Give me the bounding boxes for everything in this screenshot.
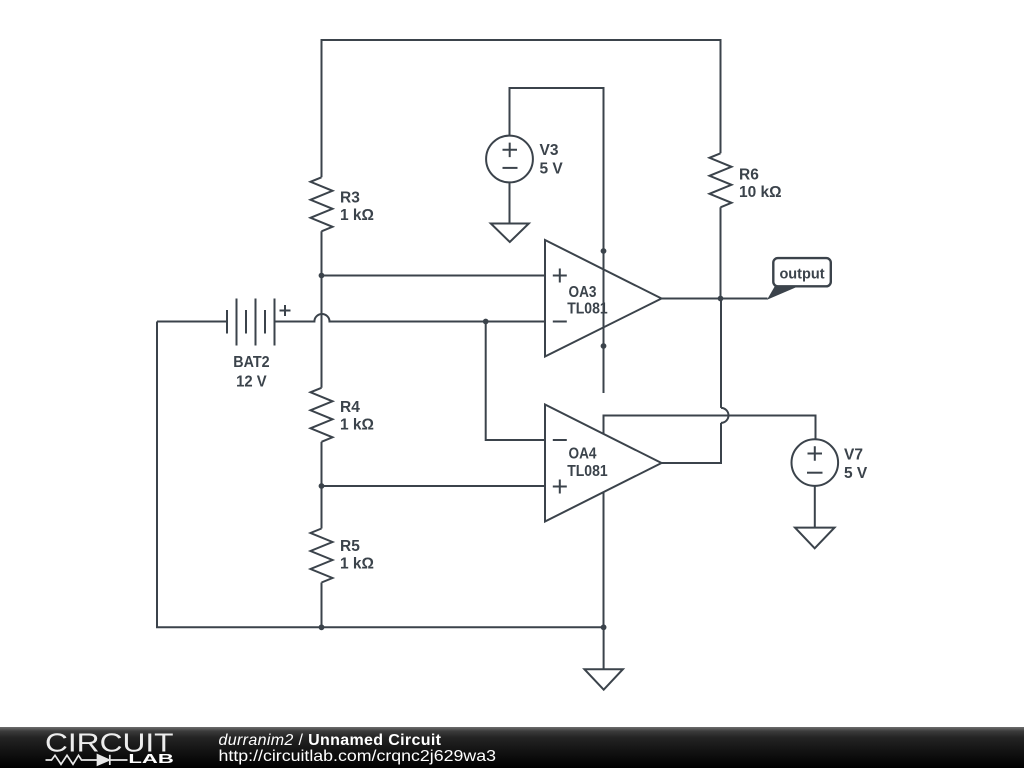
svg-text:TL081: TL081	[567, 463, 608, 480]
V3 minus mark	[503, 167, 518, 169]
svg-text:1 kΩ: 1 kΩ	[340, 207, 374, 224]
voltage source V7	[792, 439, 839, 486]
svg-text:R6: R6	[739, 167, 759, 184]
svg-text:http://circuitlab.com/crqnc2j6: http://circuitlab.com/crqnc2j629wa3	[219, 748, 497, 765]
V7 minus mark	[807, 472, 823, 474]
svg-text:TL081: TL081	[567, 301, 608, 318]
output flag tail	[767, 286, 799, 299]
node junction R4 R5 to OA4 plus	[319, 483, 325, 489]
wire R4 bottom to node	[321, 442, 323, 486]
wire node to R5 top	[321, 486, 323, 529]
wire OA4 inverting input drop	[486, 322, 545, 441]
wire OA4 Vminus pin down to ground rail	[603, 492, 605, 627]
svg-text:LAB: LAB	[128, 751, 174, 766]
svg-text:V3: V3	[540, 142, 559, 159]
footer bar	[0, 727, 1024, 768]
OA3 plus input mark	[553, 269, 567, 283]
svg-text:V7: V7	[844, 447, 863, 464]
wire output node to flag	[721, 298, 768, 300]
wire top rail from R3 top to R6 top	[322, 40, 721, 177]
svg-text:durranim2 / Unnamed Circuit: durranim2 / Unnamed Circuit	[219, 732, 442, 749]
svg-text:output: output	[779, 266, 824, 282]
node junction battery wire to OA4 inverting drop	[483, 319, 489, 325]
svg-text:1 kΩ: 1 kΩ	[340, 417, 374, 434]
wire R3 bottom to R4 top	[321, 231, 323, 387]
svg-text:5 V: 5 V	[844, 465, 868, 482]
resistor R6	[710, 153, 732, 207]
svg-text:5 V: 5 V	[540, 161, 564, 178]
wire V7 to ground	[814, 486, 816, 528]
wire OA4 output up to output node with hop over feedback	[662, 299, 722, 464]
node junction R5 bottom rail	[319, 624, 325, 630]
OA4 minus input mark	[553, 439, 567, 441]
ground below V7	[795, 528, 835, 549]
node junction OA3 Vplus pin	[601, 248, 607, 254]
node junction OA3 Vminus pin	[601, 343, 607, 349]
wire R6 bottom to output node	[720, 207, 722, 298]
CircuitLab logo resistor-diode glyph	[46, 755, 128, 765]
svg-text:12 V: 12 V	[236, 374, 267, 391]
svg-text:1 kΩ: 1 kΩ	[340, 556, 374, 573]
node junction ground rail	[601, 624, 607, 630]
wire V3 top rail to OA3 power column	[510, 88, 604, 393]
V7 plus mark	[808, 446, 823, 461]
wire OA4 Vplus pin and feedback to V7	[604, 416, 816, 440]
op-amp OA4 triangle	[545, 405, 662, 522]
resistor R3	[311, 177, 333, 231]
wire battery to OA3 inverting input with hop over node	[275, 314, 546, 322]
svg-text:R5: R5	[340, 538, 360, 555]
wire V3 to ground	[509, 182, 511, 223]
svg-text:OA4: OA4	[569, 446, 597, 463]
output flag box	[773, 258, 831, 286]
svg-text:R3: R3	[340, 190, 360, 207]
node junction R3 bottom to OA3 plus	[319, 273, 325, 279]
wire OA4 noninverting input	[322, 485, 546, 487]
wire R5 bottom to rail	[321, 583, 323, 628]
resistor R5	[311, 529, 333, 583]
hop arc on OA4 output riser	[721, 408, 729, 423]
battery BAT2 left lead	[157, 321, 227, 323]
wire OA3 noninverting input	[322, 275, 546, 277]
resistor R4	[311, 388, 333, 442]
wire OA3 output	[662, 298, 721, 300]
wire ground rail to bottom ground symbol	[603, 627, 605, 669]
svg-text:10 kΩ: 10 kΩ	[739, 184, 782, 201]
battery BAT2 plus mark	[280, 305, 291, 316]
ground below V3	[491, 224, 529, 243]
OA4 plus input mark	[553, 480, 567, 494]
OA3 minus input mark	[553, 321, 567, 323]
ground at bottom center	[584, 669, 623, 690]
svg-text:OA3: OA3	[569, 284, 597, 301]
voltage source V3	[486, 136, 533, 183]
op-amp OA3 triangle	[545, 240, 662, 357]
V3 plus mark	[503, 143, 518, 158]
svg-text:R4: R4	[340, 399, 360, 416]
svg-text:BAT2: BAT2	[233, 354, 269, 371]
battery BAT2 plates	[226, 310, 228, 334]
wire left rail and bottom ground rail	[157, 322, 604, 628]
node junction output	[718, 296, 724, 302]
